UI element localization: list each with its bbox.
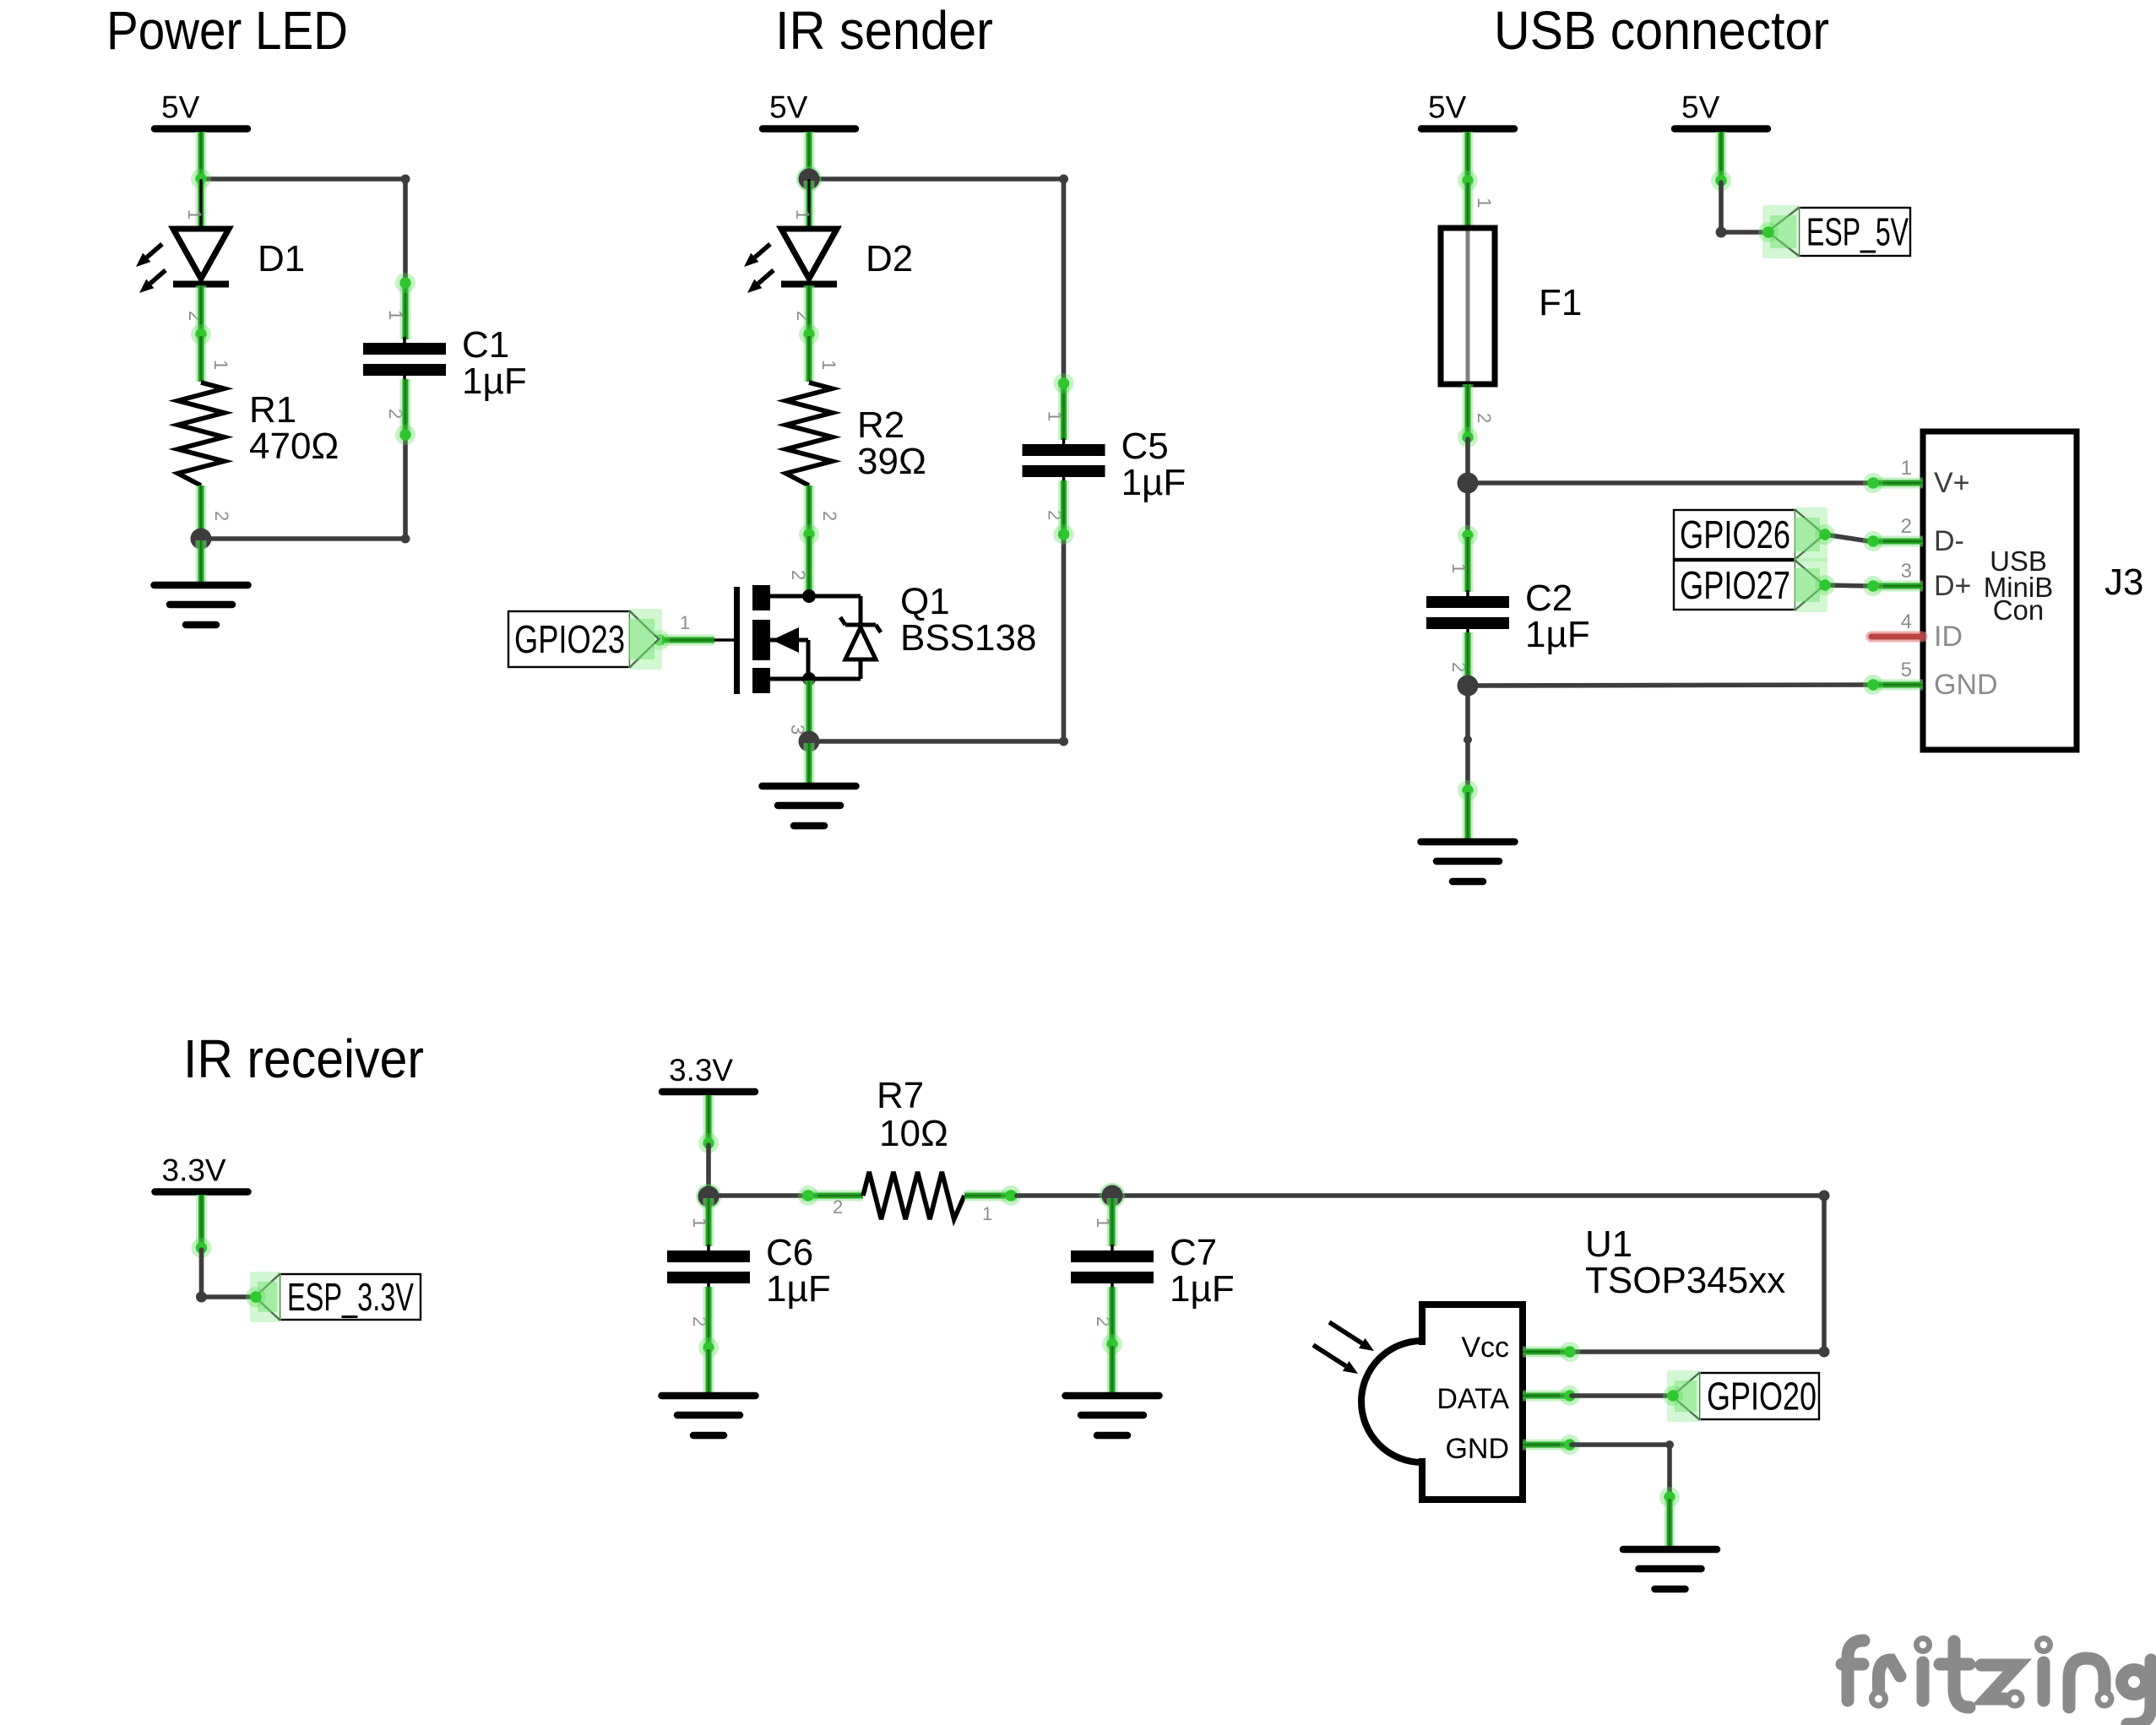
resistor R7 10 ohm [863,1172,964,1219]
pin end J3.5 [1863,675,1883,695]
svg-text:GPIO26: GPIO26 [1680,513,1790,556]
wire bend dot [1059,737,1068,746]
lead C6 pin 2 [703,1287,714,1348]
U1 pin names [1436,1332,1509,1465]
power symbol 3.3V (IR receiver) [662,1053,755,1092]
J3 pin names [1934,467,1998,701]
svg-text:C6: C6 [766,1232,813,1273]
label R2 [857,404,926,482]
svg-text:1µF: 1µF [766,1268,831,1310]
svg-text:V+: V+ [1934,467,1970,499]
pin labels D2 [792,209,814,321]
lead D2 pin 2 [804,285,815,334]
svg-text:R2: R2 [857,404,904,446]
IC U1 TSOP345xx [1361,1305,1523,1500]
pin end C5.2 [1054,524,1074,545]
svg-text:D-: D- [1934,525,1964,557]
ground (C7) [1066,1396,1159,1435]
lead J3 pin 1 V+ [1871,478,1923,489]
pin end J3.2 [1863,531,1883,551]
lead R2 pin 2 [804,485,815,534]
svg-text:TSOP345xx: TSOP345xx [1585,1260,1785,1301]
pin end J3.1 [1863,473,1883,493]
wire bend dot [1819,1347,1830,1358]
wire bend dot [1819,1191,1830,1202]
label C2 [1525,578,1590,655]
connector J3 USB MiniB [1923,431,2077,750]
lead U1 GND [1523,1440,1572,1451]
lead J3 pin 5 GND [1871,680,1923,691]
lead F1 pin 1 [1463,182,1474,230]
J3 part type text [1984,545,2054,626]
svg-text:2: 2 [1901,515,1912,538]
wire to GND symbol [1465,687,1470,790]
svg-text:IR receiver: IR receiver [183,1028,424,1089]
light arrows D2 [744,244,770,267]
lead Q1 pin 1 (gate) [660,635,714,646]
junction 3.3V / R7 / C6 [696,1184,721,1209]
svg-text:5: 5 [1901,659,1912,681]
svg-text:GPIO23: GPIO23 [514,617,625,661]
lead 5V pin [1463,132,1474,181]
lead C2 pin 1 [1463,537,1474,592]
svg-text:1: 1 [1045,411,1066,421]
pin end GPIO26 [1815,524,1835,545]
fuse F1 [1441,228,1495,384]
pin end 3.3V [192,1238,212,1258]
label Q1 [900,581,1036,659]
lead Q1 pin 3 (source) [804,681,815,740]
lead Q1 pin 2 (drain) [804,536,815,594]
svg-text:2: 2 [211,511,232,521]
svg-text:Con: Con [1993,594,2045,626]
lead GND pin [1107,1346,1118,1399]
lead D2 pin 1 [804,181,815,228]
svg-text:1: 1 [1901,457,1912,480]
lead J3 pin 3 D+ [1871,581,1923,592]
svg-text:R1: R1 [249,389,296,431]
wire 3.3V to R7 node [706,1145,711,1196]
lead U1 DATA [1523,1391,1572,1402]
ground (IR sender) [763,786,856,826]
svg-text:1: 1 [689,1218,710,1228]
ground (Power LED) [155,585,248,625]
svg-text:4: 4 [1901,610,1912,633]
wire bend dot [401,534,410,544]
capacitor C2 1uF [1426,590,1509,635]
pin end C2.1 [1458,525,1478,545]
svg-text:470Ω: 470Ω [249,426,339,467]
lead GND pin [196,540,207,589]
svg-text:USB connector: USB connector [1494,0,1829,61]
pin labels D1 [184,209,206,321]
power symbol 5V (USB) [1421,90,1514,129]
lead 5V pin [196,132,207,179]
lead GND pin [1665,1499,1675,1553]
pin end GND [1458,780,1478,800]
power symbol 5V (IR sender) [763,90,855,129]
svg-text:1µF: 1µF [1525,614,1590,655]
svg-text:3.3V: 3.3V [669,1053,733,1088]
svg-text:39Ω: 39Ω [857,441,926,482]
svg-text:1: 1 [385,310,406,320]
pin labels C5 [1045,411,1066,520]
svg-text:2: 2 [833,1196,843,1218]
pin end ESP_5V [1758,222,1779,242]
label C7 [1170,1232,1235,1310]
lead R7 pin 2 [802,1191,863,1202]
svg-text:5V: 5V [161,90,200,125]
svg-text:1: 1 [680,612,690,633]
label R1 [249,389,339,467]
svg-text:5V: 5V [769,90,808,125]
wire R7 to U1 Vcc [1017,1196,1824,1352]
junction 5V / D2 / C5 [796,166,822,192]
gate wire Q1 [660,638,735,642]
lead U1 Vcc [1523,1347,1572,1358]
pin end C7.2 [1102,1334,1122,1354]
body diode (zener) of Q1 [840,617,881,679]
wire V+ node to J3 pin 1 [1468,480,1871,485]
transistor Q1 BSS138 [737,585,861,694]
ground (U1) [1623,1549,1717,1589]
svg-text:GPIO20: GPIO20 [1707,1375,1817,1419]
pin end C6.2 [698,1337,719,1358]
wire 5V to ESP_5V label [1721,182,1767,232]
svg-text:3: 3 [1901,560,1912,583]
net label GPIO20 [1667,1370,1819,1422]
wire GND node to J3 pin 5 [1468,685,1871,686]
lead R2 pin 1 [804,336,815,382]
power symbol 5V (Power LED) [155,90,247,129]
lead C5 pin 1 [1058,383,1069,440]
svg-text:5V: 5V [1428,90,1467,125]
svg-text:1: 1 [1474,198,1495,208]
label C6 [766,1232,831,1310]
pin end U1 GND [1560,1435,1580,1455]
lead C5 pin 2 [1058,480,1069,534]
pin end 5V [1458,171,1478,191]
lead C7 pin 2 [1107,1287,1118,1344]
wire GPIO26 to J3 D- [1825,534,1869,541]
J3 pin numbers [1901,457,1912,681]
svg-text:1: 1 [184,209,205,220]
light arrows D1 [136,244,162,267]
svg-text:D+: D+ [1934,570,1971,602]
pin end C1.1 [395,273,415,293]
pin labels R1 [210,360,232,521]
lead C6 pin 1 [703,1198,714,1246]
wire node to R7 pin 2 [709,1193,804,1198]
svg-text:D2: D2 [866,238,913,279]
svg-text:F1: F1 [1539,282,1582,323]
junction R1 / C1 / GND [191,529,212,550]
label U1 [1585,1223,1785,1301]
pin end ESP_3.3V [246,1287,266,1307]
svg-text:GPIO27: GPIO27 [1680,563,1790,607]
lead D1 pin 2 [196,285,207,334]
label C1 [462,324,527,402]
pin end J3.3 [1863,576,1883,596]
pin labels Q1 [680,570,809,735]
wire 3.3V to ESP_3.3V label [202,1250,254,1297]
lead J3 pin 4 ID (unconnected, red) [1871,632,1922,643]
fritzing logo [1842,1641,2151,1724]
svg-text:10Ω: 10Ω [879,1113,948,1154]
pin labels C6 [689,1218,710,1326]
wire F1 to V+ node [1465,439,1470,483]
svg-text:GND: GND [1445,1433,1509,1465]
junction R7 / C7 [1100,1183,1125,1208]
lead C7 pin 1 [1107,1198,1118,1246]
svg-text:1µF: 1µF [1170,1268,1235,1310]
lead F1 pin 2 [1463,384,1474,437]
svg-text:J3: J3 [2104,561,2143,603]
junction F1 / V+ / C2 [1458,473,1479,494]
capacitor C6 1uF [667,1245,750,1289]
svg-text:1: 1 [1448,563,1469,573]
svg-text:1µF: 1µF [462,361,527,402]
net label GPIO26 [1674,507,1827,561]
svg-text:3.3V: 3.3V [162,1153,226,1188]
svg-text:1: 1 [818,360,839,370]
svg-text:5V: 5V [1681,90,1720,125]
lead R1 pin 1 [196,336,207,382]
svg-text:1µF: 1µF [1121,462,1187,503]
wire C5 pin 2 to GND node [809,534,1064,741]
wire 5V node to C1 pin 1 [201,179,405,283]
label R7 [877,1075,948,1154]
capacitor C7 1uF [1071,1245,1154,1289]
svg-text:C7: C7 [1170,1232,1217,1273]
pin end F1.2 [1458,427,1478,448]
wire GPIO27 to J3 D+ [1825,585,1869,586]
pin end U1 DATA [1560,1386,1580,1406]
resistor R2 39 ohm [786,382,833,485]
pin labels C2 [1448,563,1469,672]
pin end U1 Vcc [1560,1342,1580,1362]
node D2 cathode / R2 [799,324,819,344]
pin labels R2 [818,360,840,521]
pin labels C7 [1093,1218,1114,1326]
capacitor C5 1uF [1023,438,1105,483]
svg-text:Q1: Q1 [900,581,950,622]
pin end GPIO27 [1815,575,1835,595]
pin end GND [1659,1487,1680,1507]
wire to C2 pin 1 [1465,485,1470,535]
pin labels C1 [385,310,406,419]
svg-text:1: 1 [792,209,813,220]
lead C2 pin 2 [1463,632,1474,686]
svg-text:DATA: DATA [1436,1383,1509,1415]
lead D1 pin 1 [196,181,207,228]
light arrows U1 [1329,1322,1374,1351]
lead GND pin [703,1349,714,1399]
lead GND pin [804,743,815,789]
pin labels R7 [833,1196,992,1224]
wire DATA to GPIO20 [1572,1393,1670,1398]
pin end GPIO20 [1663,1386,1683,1406]
lead 5V pin [1716,132,1727,181]
wire U1 GND to ground [1572,1445,1670,1496]
svg-text:R7: R7 [877,1075,924,1116]
lead C1 pin 2 [400,379,411,435]
lead C1 pin 1 [400,283,411,339]
pin end C5.1 [1054,373,1074,393]
wire bend dot [1464,735,1472,744]
svg-text:GND: GND [1934,669,1998,701]
pin end R7.2 [798,1185,818,1206]
pin end C1.2 [395,425,415,445]
pin end 3.3V [698,1133,719,1153]
pin end 5V [1711,171,1731,191]
wire 5V node to C5 pin 1 [809,179,1064,383]
svg-text:1: 1 [1093,1218,1114,1228]
wire C1 pin 2 to GND node [201,435,405,539]
lead J3 pin 2 D- [1871,536,1923,547]
lead R1 pin 2 [196,485,207,538]
power symbol 3.3V (ESP_3.3V) [155,1153,248,1192]
svg-text:1: 1 [210,360,231,370]
svg-text:ID: ID [1934,621,1963,653]
net label ESP_3.3V [250,1272,421,1322]
wire bend dot [1716,227,1727,238]
pin labels F1 [1474,198,1495,423]
svg-text:C5: C5 [1121,426,1169,467]
svg-text:IR sender: IR sender [775,0,993,61]
svg-text:C1: C1 [462,324,509,366]
ground (C6) [662,1396,756,1435]
svg-text:ESP_3.3V: ESP_3.3V [287,1275,414,1319]
wire bend dot [1059,175,1068,184]
power symbol 5V (ESP_5V) [1675,90,1768,129]
junction Q1 source / C5 / GND [799,731,820,752]
lead R7 pin 1 [964,1191,1017,1202]
wire bend dot [196,1292,207,1303]
svg-text:1: 1 [982,1203,992,1224]
wire bend dot [401,175,410,184]
LED D1 [173,179,229,285]
wire bend dot [1665,1440,1674,1449]
svg-text:2: 2 [819,511,840,521]
capacitor C1 1uF [363,337,446,382]
LED D2 [781,179,837,285]
lead GND pin [1463,792,1474,845]
node R2 / Q1 drain [799,524,819,545]
svg-text:Vcc: Vcc [1461,1332,1509,1364]
svg-text:Power LED: Power LED [106,0,348,61]
label C5 [1121,426,1187,503]
svg-text:2: 2 [788,570,809,580]
lead 3.3V pin [196,1195,207,1248]
junction C2 / GND / J3 GND [1458,675,1479,697]
resistor R1 470 ohm [178,382,225,485]
svg-text:C2: C2 [1525,578,1572,619]
net label GPIO23 [508,609,662,670]
pin end Q1 gate [649,630,670,650]
ground (USB) [1421,842,1515,881]
svg-text:2: 2 [1474,413,1495,423]
node D1 cathode / R1 [191,324,211,344]
pin end R7.1 [1001,1185,1021,1206]
net label GPIO27 [1674,558,1827,612]
net label ESP_5V [1762,205,1910,258]
lead 3.3V pin [703,1095,714,1143]
svg-text:BSS138: BSS138 [900,617,1036,659]
svg-text:U1: U1 [1585,1223,1632,1265]
node 5V/D1 anode [191,169,211,189]
lead 5V pin [804,132,815,179]
svg-text:D1: D1 [258,238,305,279]
svg-text:ESP_5V: ESP_5V [1806,210,1909,254]
